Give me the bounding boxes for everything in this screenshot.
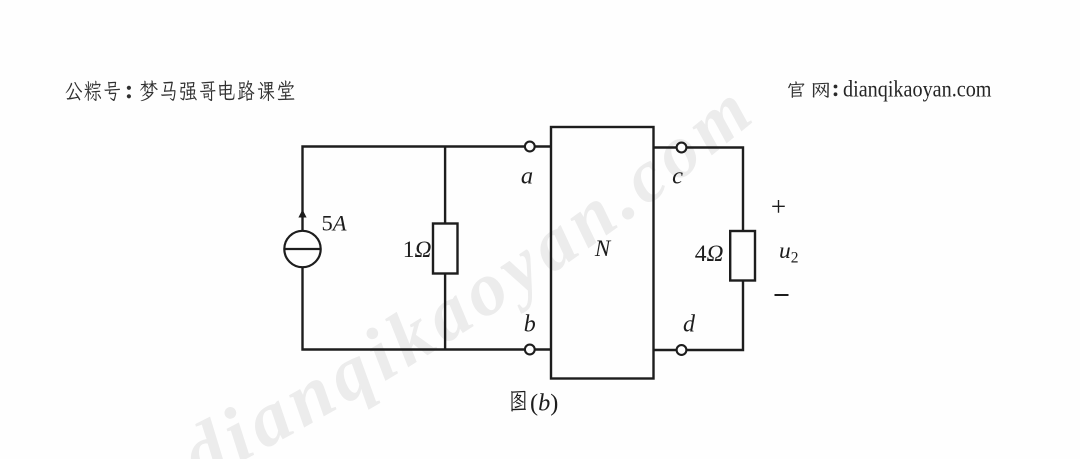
resistor R1 1Ω [433, 224, 458, 274]
watermark dianqikaoyan.com [167, 70, 766, 459]
header text 公粽号：梦马强哥电路课堂 [66, 80, 295, 101]
wire: node b to box N left bottom pin [534, 348, 551, 350]
terminal c [677, 143, 687, 153]
svg-text:(b): (b) [530, 390, 558, 417]
wire: node c to right rail down to R2 [686, 148, 743, 232]
wire: middle branch bottom (R1 to bottom rail) [444, 274, 446, 350]
wire: middle branch top (top rail to R1) [444, 147, 446, 224]
header text 官网：dianqikaoyan.com [788, 77, 991, 102]
current source 5A (circle with bar) [284, 231, 320, 267]
svg-text:c: c [672, 163, 683, 190]
svg-text:N: N [594, 236, 612, 261]
wire: node d to box N right bottom pin [654, 349, 677, 351]
terminal d [677, 345, 687, 355]
polarity − [775, 294, 789, 296]
svg-text:b: b [524, 312, 536, 338]
wire: R2 to bottom right rail to node d [686, 281, 743, 351]
wire: node a to box N left top pin [534, 145, 551, 147]
resistor R2 4Ω [730, 231, 755, 281]
wire: bottom rail from current source to node b [303, 268, 525, 350]
svg-text:a: a [521, 163, 533, 190]
wire: box N right top pin to node c [654, 146, 677, 148]
terminal a [525, 142, 535, 152]
two-port network N [551, 127, 654, 379]
current direction arrow (up) [298, 210, 306, 218]
svg-text:d: d [683, 312, 696, 338]
svg-text:1Ω: 1Ω [403, 237, 432, 263]
svg-text:5A: 5A [322, 211, 347, 236]
svg-text:+: + [771, 192, 786, 222]
caption 图(b) [511, 390, 558, 417]
wire: top rail from current source to node a [303, 147, 525, 232]
svg-text:4Ω: 4Ω [695, 241, 724, 267]
terminal b [525, 345, 535, 355]
svg-text:dianqikaoyan.com: dianqikaoyan.com [843, 77, 992, 102]
